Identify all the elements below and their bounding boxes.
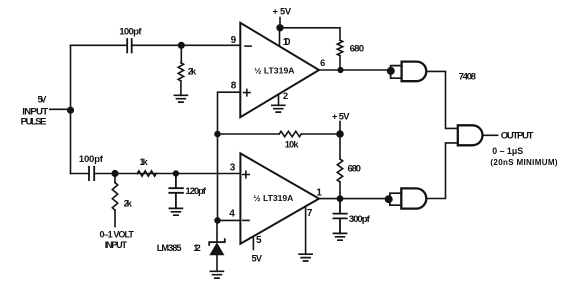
capacitor 100pf (top series) [127,39,132,52]
wire: bottom signal line from input corner to pin 3 [71,173,241,175]
resistor 680 (top) [337,40,342,56]
svg-text:100pf: 100pf [79,154,104,165]
svg-text:10: 10 [283,37,291,48]
wire: top signal line from input to pin 9 [71,44,241,46]
wire: 10k row to +5V node [218,133,341,135]
capacitor 300pf (shunt) [333,199,346,234]
svg-text:1k: 1k [140,157,149,167]
svg-text:INPUT: INPUT [105,240,128,250]
svg-text:100pf: 100pf [119,27,142,38]
svg-text:+ 5V: + 5V [332,111,350,121]
resistor 2k (top) [180,45,182,63]
ground (U1 pin 2) [272,105,285,112]
op-amp U1: upper 1/2 LT319A comparator [240,23,319,117]
node: upper output / 680 junction [338,68,343,73]
ground (below 120pf) [169,208,182,215]
svg-text:5V: 5V [252,254,263,264]
node: input junction [68,107,74,113]
ground (below LM385) [210,271,223,278]
svg-text:4: 4 [229,209,235,220]
svg-text:1.2: 1.2 [193,243,201,253]
svg-text:2: 2 [283,91,288,101]
capacitor 100pf (bottom series) [89,167,94,180]
node: 10k / reference junction [215,132,220,137]
svg-text:680: 680 [348,164,362,175]
resistor 10k [279,131,301,136]
zener diode LM385 1.2V reference [216,220,218,242]
svg-text:PULSE: PULSE [21,117,47,128]
minus sign U1 pin 9 [245,45,251,47]
pin 2 ground lead of U1 [278,94,280,105]
svg-text:½ LT319A: ½ LT319A [254,66,294,76]
input stubs G2 [390,193,401,205]
svg-text:OUTPUT: OUTPUT [501,131,534,142]
svg-text:5V: 5V [38,94,47,104]
node: +5V middle rail [337,131,343,137]
resistor 1k [137,171,156,176]
wire: reference bus from 10k node down to pin 4 and LM385 [217,134,219,220]
svg-text:5: 5 [256,235,262,246]
node: 120pf junction [174,171,179,176]
svg-text:7: 7 [307,208,313,219]
svg-text:2k: 2k [124,199,133,209]
svg-text:½ LT319A: ½ LT319A [253,193,293,203]
wire: pin 8 lead of upper comparator [218,92,241,134]
AND gate G3 (7408, output) [458,125,483,145]
pin 5 supply lead of U2 [252,236,254,249]
resistor 680 (bottom) [339,134,341,159]
svg-text:1: 1 [316,187,322,198]
svg-text:120pf: 120pf [185,186,206,197]
wire: left vertical input bus [70,45,72,173]
svg-text:+ 5V: + 5V [273,6,292,16]
wire: upper +5V rail over comparator to 680 [280,18,340,41]
plus sign U2 pin 3 [243,171,250,178]
capacitor 120pf (shunt) [169,174,183,209]
svg-text:6: 6 [320,58,325,68]
svg-text:7408: 7408 [459,71,477,82]
wire: +5V middle lead [339,122,341,135]
svg-text:2k: 2k [188,66,197,76]
ground (below 300pf) [334,233,347,240]
pin 7 ground lead of U2 [305,206,307,254]
svg-text:0–1 VOLT: 0–1 VOLT [100,230,135,240]
resistor 2k (bottom) [114,174,116,183]
svg-text:10k: 10k [285,140,300,150]
ground (U2 pin 7) [299,254,312,261]
node: upper +5V corner [277,25,283,31]
svg-text:LM385: LM385 [157,243,182,253]
node: bottom 2k junction [112,171,118,177]
wire: pin 4 lead of lower comparator [218,219,241,221]
svg-text:3: 3 [230,163,236,174]
svg-text:680: 680 [350,44,365,55]
wire: upper AND gate output to final gate [426,71,458,128]
ground (below top 2k) [174,95,187,102]
svg-text:0 – 1μS: 0 – 1μS [492,146,523,156]
wire: upper comparator output to AND gate [319,69,388,71]
wire: lower AND gate output to final gate [426,143,458,199]
wire: final gate output lead [483,134,498,136]
node: top 2k junction [179,43,185,49]
plus sign U1 pin 8 [244,89,250,95]
node: pin 4 / LM385 junction [215,218,220,223]
node: tied inputs G1 [388,68,394,74]
AND gate G2 (7408, lower) [401,188,426,208]
wire: lower comparator output to AND gate [319,198,386,200]
svg-text:300pf: 300pf [349,214,371,225]
node: tied inputs G2 [386,196,392,202]
input stubs G1 [391,66,402,79]
node: lower output / 680 / 300pf junction [337,196,342,201]
svg-text:8: 8 [231,81,237,92]
wire: input label stub [50,108,71,110]
minus sign U2 pin 4 [243,219,249,221]
svg-text:9: 9 [231,35,237,46]
AND gate G1 (7408, upper) [402,62,427,82]
op-amp U2: lower 1/2 LT319A comparator [240,153,319,243]
svg-text:(20nS MINIMUM): (20nS MINIMUM) [490,158,557,167]
wire: pin 10 lead [279,28,281,47]
